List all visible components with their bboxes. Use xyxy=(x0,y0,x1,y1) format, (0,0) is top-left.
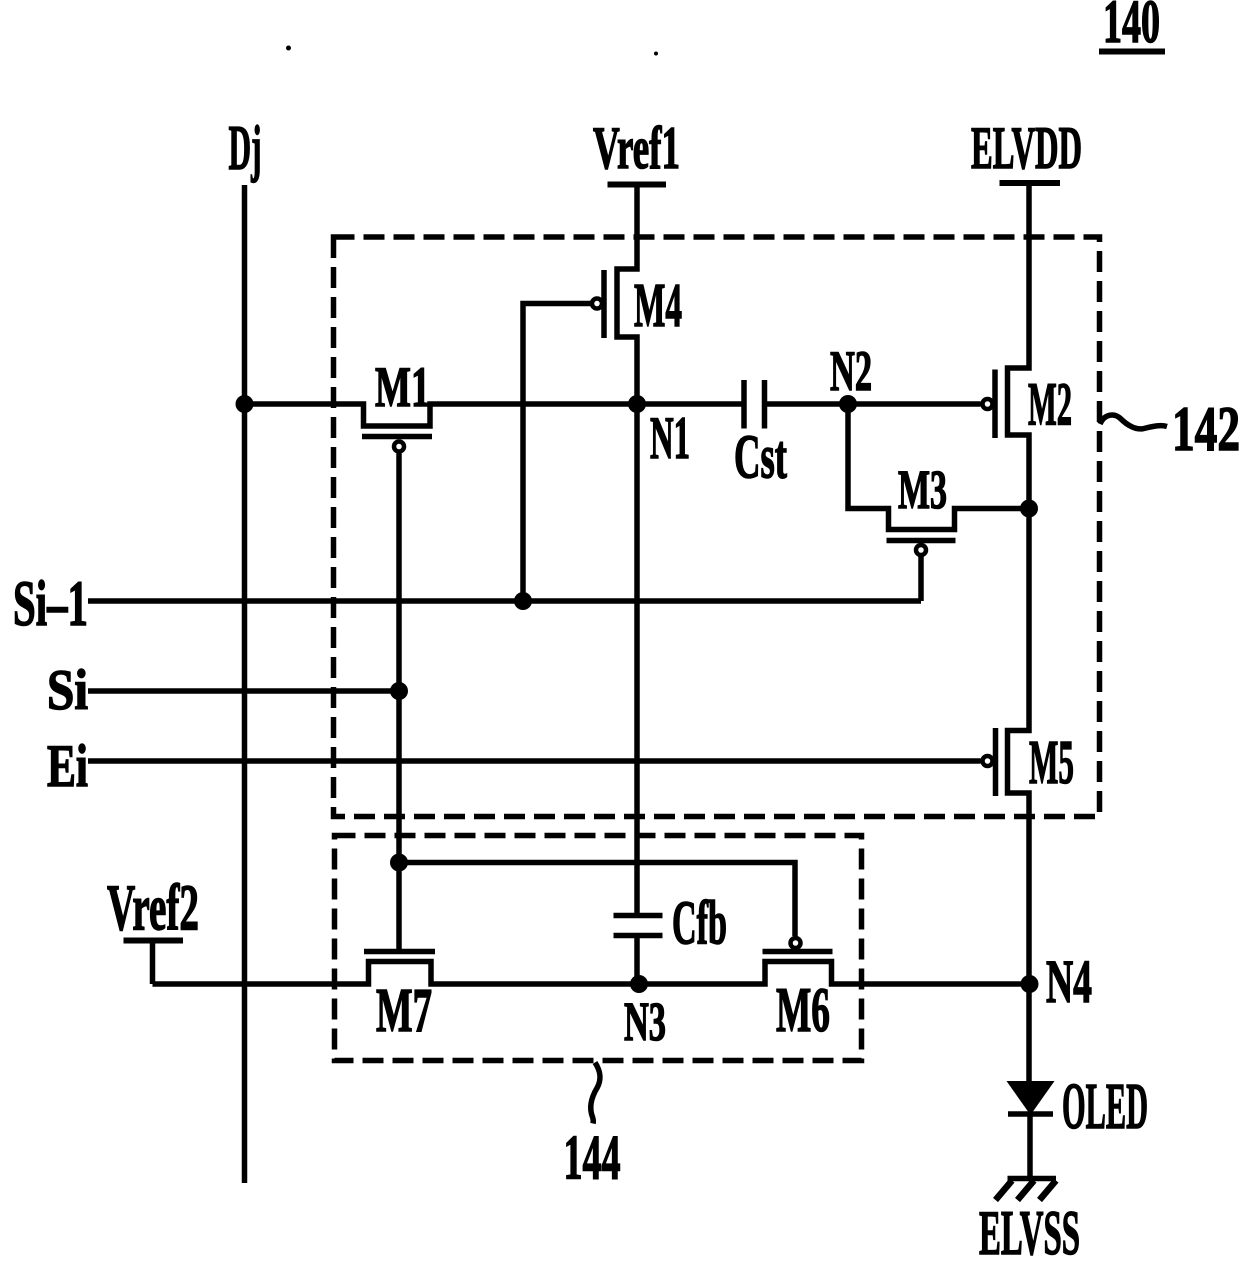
svg-text:Vref1: Vref1 xyxy=(593,115,680,181)
svg-text:Ei: Ei xyxy=(47,733,88,799)
data line Dj xyxy=(229,113,262,1183)
emission line Ei xyxy=(47,733,981,799)
svg-text:ELVSS: ELVSS xyxy=(979,1197,1080,1264)
svg-text:OLED: OLED xyxy=(1062,1070,1148,1143)
ELVDD / M2 / M5 right rail with channels xyxy=(1008,183,1030,1081)
transistor M4 gate xyxy=(523,270,682,601)
ground ELVSS xyxy=(979,1179,1080,1269)
svg-text:144: 144 xyxy=(564,1123,621,1193)
transistor M7 gate xyxy=(364,952,435,1046)
node N2 xyxy=(830,340,872,413)
dashed box 142 xyxy=(334,237,1100,817)
svg-text:140: 140 xyxy=(1103,0,1160,56)
diode OLED xyxy=(1007,1070,1149,1177)
svg-text:N2: N2 xyxy=(830,340,872,403)
svg-text:M6: M6 xyxy=(776,974,830,1045)
scan line Si-1 xyxy=(13,568,921,640)
svg-text:Vref2: Vref2 xyxy=(107,872,199,945)
svg-text:Si: Si xyxy=(47,659,88,722)
Vref2 terminal xyxy=(107,872,199,985)
junction Si-1 x M4 gate xyxy=(514,592,532,610)
svg-text:Cfb: Cfb xyxy=(672,890,727,958)
transistor M3 gate xyxy=(887,541,956,602)
speck dot left xyxy=(286,46,291,51)
node N4 xyxy=(1021,949,1093,1016)
junction M3 drain on rail xyxy=(1020,500,1038,518)
svg-text:Dj: Dj xyxy=(229,113,262,183)
label 142 with squiggle xyxy=(1100,393,1240,464)
svg-text:ELVDD: ELVDD xyxy=(971,115,1082,181)
transistor M6 gate xyxy=(763,938,833,1045)
node N3 xyxy=(624,975,666,1052)
junction Dj x M1 xyxy=(236,395,254,413)
feedback wire from M1 gate line to M6 gate xyxy=(399,863,795,937)
wire Vref1 rail with M4 source/drain channel down to N1 and Cfb top plate xyxy=(617,185,637,914)
transistor M5 gate xyxy=(983,728,1075,797)
speck dot right xyxy=(654,52,658,56)
capacitor Cst xyxy=(734,380,787,492)
svg-text:M3: M3 xyxy=(898,459,947,520)
transistor M2 gate xyxy=(983,370,1073,439)
ELVDD terminal xyxy=(971,115,1082,183)
svg-text:Si–1: Si–1 xyxy=(13,568,88,640)
svg-text:M4: M4 xyxy=(634,272,682,340)
svg-text:M1: M1 xyxy=(375,356,430,419)
svg-text:M2: M2 xyxy=(1028,372,1072,439)
svg-text:M5: M5 xyxy=(1029,729,1074,797)
transistor M1 gate xyxy=(362,437,432,952)
junction feedback x gate line xyxy=(390,854,408,872)
svg-text:N1: N1 xyxy=(650,405,690,471)
Vref1 terminal xyxy=(593,115,680,185)
junction Si x M1 gate xyxy=(390,682,408,700)
svg-text:M7: M7 xyxy=(376,977,432,1045)
svg-text:N3: N3 xyxy=(624,991,666,1052)
transistor M1 channel with wire from Dj to N1 xyxy=(245,356,742,426)
label 144 with squiggle xyxy=(564,1063,621,1193)
scan line Si xyxy=(47,659,399,722)
wire Cst to M2 gate through N2 xyxy=(767,401,981,407)
svg-text:142: 142 xyxy=(1172,393,1240,464)
node N1 xyxy=(628,395,690,471)
dashed box 144 xyxy=(335,836,862,1061)
svg-text:N4: N4 xyxy=(1046,949,1092,1016)
figure number 140 xyxy=(1099,0,1165,56)
bottom row wire with M7 and M6 channels from Vref2 to N4 xyxy=(153,962,1031,985)
transistor M3 channel with wires from N2 to rail xyxy=(848,404,1029,530)
capacitor Cfb xyxy=(614,890,728,985)
svg-text:Cst: Cst xyxy=(734,424,787,492)
